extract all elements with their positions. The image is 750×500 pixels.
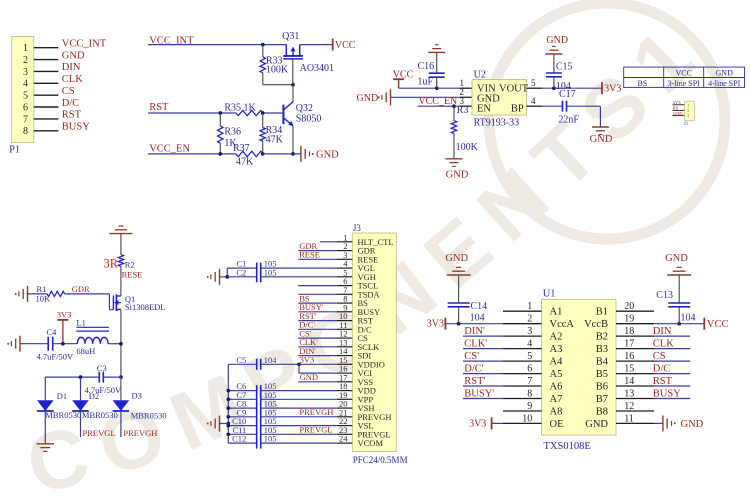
wire GDR to Q1 gate xyxy=(65,294,114,310)
svg-text:R2: R2 xyxy=(125,260,135,270)
R34 designator and value 47K xyxy=(266,125,284,145)
svg-text:B2: B2 xyxy=(596,332,608,343)
svg-text:C13: C13 xyxy=(656,290,673,301)
node 3V3/C4/L1 xyxy=(61,342,65,346)
R36 designator and value 1K xyxy=(224,127,241,149)
capacitor C6 xyxy=(228,385,336,396)
wire BP to ground xyxy=(599,106,601,127)
svg-text:CS': CS' xyxy=(464,351,479,362)
power port 3V3 (U1 VccA) xyxy=(427,318,446,330)
svg-text:VccB: VccB xyxy=(584,319,608,330)
node 3V3/pin16 branch xyxy=(297,362,301,366)
svg-text:A5: A5 xyxy=(550,369,563,380)
wire 3V3 to VccA xyxy=(445,323,503,325)
node C16/VIN xyxy=(435,86,439,90)
svg-text:CLK': CLK' xyxy=(464,339,487,350)
svg-text:GND: GND xyxy=(716,69,734,78)
node R35/R34 xyxy=(261,111,265,115)
U1 pin numbers left 1-10 xyxy=(522,301,532,424)
svg-text:VccA: VccA xyxy=(550,319,575,330)
capacitor C10 xyxy=(228,420,336,431)
wire R33 bottom to gate node xyxy=(263,84,293,86)
svg-text:B8: B8 xyxy=(596,407,608,418)
svg-text:GND: GND xyxy=(445,253,468,264)
wire EN xyxy=(418,105,472,107)
capacitor C13 xyxy=(668,275,690,324)
svg-text:3R: 3R xyxy=(104,257,119,271)
svg-text:VCC_INT: VCC_INT xyxy=(62,39,107,50)
net label RESE (J3 pin3) xyxy=(298,250,336,260)
svg-text:GND: GND xyxy=(681,419,704,430)
svg-text:6: 6 xyxy=(23,103,28,114)
capacitor C9 xyxy=(228,411,336,422)
svg-text:DIN: DIN xyxy=(62,62,81,73)
wire VOUT to 3V3 xyxy=(527,87,603,89)
svg-text:D/C: D/C xyxy=(653,364,671,375)
wire J3 pin6 xyxy=(298,285,336,287)
wire U2 GND pin xyxy=(391,96,473,98)
wire PREVGL stub xyxy=(80,411,82,437)
wire to D2 xyxy=(80,377,82,400)
svg-text:100K: 100K xyxy=(456,142,479,153)
wire J3 pin1 xyxy=(320,241,337,243)
svg-text:R1: R1 xyxy=(37,284,47,294)
svg-text:D/C': D/C' xyxy=(464,364,484,375)
svg-text:GND: GND xyxy=(673,111,683,116)
svg-text:A7: A7 xyxy=(550,394,563,405)
svg-text:C17: C17 xyxy=(559,89,576,100)
resistor R33 xyxy=(260,45,265,85)
svg-text:R35 1K: R35 1K xyxy=(224,103,256,114)
P1 pin numbers 1-8 xyxy=(23,43,28,137)
svg-text:RST: RST xyxy=(149,102,169,113)
svg-text:GND: GND xyxy=(665,253,688,264)
svg-text:GND: GND xyxy=(585,419,608,430)
wire J3 pin7 xyxy=(298,293,336,295)
svg-text:VCC: VCC xyxy=(393,69,414,80)
svg-text:105: 105 xyxy=(264,267,277,277)
table texts xyxy=(638,69,741,88)
wire L1 to Q1 rail xyxy=(108,343,121,345)
ground (U1 pin 11) xyxy=(663,415,704,431)
ground (below R3) xyxy=(446,159,469,181)
wire branch to pin16 xyxy=(299,364,337,373)
IC U1 TXS0108E xyxy=(542,300,617,435)
net label DIN' (J3 pin 14) xyxy=(298,346,336,356)
net label DIN' (U1 pin 3) xyxy=(463,326,503,337)
svg-text:MBR0530: MBR0530 xyxy=(131,410,167,420)
connector P1 xyxy=(12,37,34,143)
svg-text:BP: BP xyxy=(511,104,524,115)
svg-text:4-line SPI: 4-line SPI xyxy=(708,79,741,88)
node VCC_INT/R33 xyxy=(261,43,265,47)
J1 pin numbers xyxy=(687,102,690,118)
power port VCC xyxy=(333,39,356,51)
svg-text:4: 4 xyxy=(531,96,536,106)
svg-text:3V3: 3V3 xyxy=(673,100,681,105)
J3 pin names xyxy=(358,237,394,448)
ground (top of boost section, above R2) xyxy=(109,226,132,234)
U2 pin numbers xyxy=(460,78,537,106)
svg-text:R36: R36 xyxy=(224,127,241,138)
svg-text:22nF: 22nF xyxy=(558,115,579,126)
capacitor C15 xyxy=(546,54,562,88)
svg-text:VCC: VCC xyxy=(707,319,729,330)
wire VIN xyxy=(399,87,472,89)
U2 pin names xyxy=(477,84,529,115)
wire R35 to Q32 base xyxy=(263,112,283,114)
net label RST (U1 pin 14) xyxy=(653,376,690,387)
net label CS' (U1 pin 5) xyxy=(463,351,503,362)
svg-text:RESE: RESE xyxy=(122,269,143,279)
resistor R3 xyxy=(451,106,456,159)
net label CLK' (U1 pin 4) xyxy=(463,339,503,350)
svg-text:47K: 47K xyxy=(266,135,284,146)
svg-text:C4: C4 xyxy=(47,327,58,337)
net label BUSY (U1 pin 13) xyxy=(653,389,690,400)
svg-text:J3: J3 xyxy=(353,223,362,233)
capacitor C4 xyxy=(20,337,77,351)
svg-text:100K: 100K xyxy=(266,64,289,75)
svg-text:VCC_EN: VCC_EN xyxy=(418,96,457,107)
svg-text:PFC24/0.5MM: PFC24/0.5MM xyxy=(353,455,408,465)
svg-text:PREVGL: PREVGL xyxy=(83,428,116,438)
svg-text:D3: D3 xyxy=(132,390,142,400)
svg-text:GND: GND xyxy=(316,150,339,161)
IC U2 RT9193-33 xyxy=(472,80,527,116)
svg-text:GND: GND xyxy=(446,170,469,181)
svg-text:B3: B3 xyxy=(596,344,608,355)
svg-text:1: 1 xyxy=(23,43,28,54)
net label DIN (U1 pin 18) xyxy=(653,326,690,337)
wire cap common rail xyxy=(227,364,229,443)
net label GDR (J3 pin2) xyxy=(298,241,336,251)
ground (above C15) xyxy=(545,35,568,54)
svg-text:A3: A3 xyxy=(550,344,563,355)
svg-text:RT9193-33: RT9193-33 xyxy=(474,117,520,128)
ground (left of R1) xyxy=(15,286,28,302)
svg-text:3: 3 xyxy=(460,96,465,106)
svg-text:S8050: S8050 xyxy=(296,114,322,125)
svg-text:R37: R37 xyxy=(233,143,250,154)
svg-text:C2: C2 xyxy=(236,267,246,277)
wire Q1 source down xyxy=(120,310,122,378)
net label D/C' (U1 pin 6) xyxy=(463,364,503,375)
svg-text:MBR0530: MBR0530 xyxy=(82,410,118,420)
svg-text:RST: RST xyxy=(62,110,82,121)
svg-text:R3: R3 xyxy=(457,105,469,116)
J3 pin stubs xyxy=(337,242,353,443)
svg-text:B1: B1 xyxy=(596,307,608,318)
svg-text:GND: GND xyxy=(546,35,568,46)
net label RST' (J3 pin 10) xyxy=(298,311,336,321)
svg-text:CLK: CLK xyxy=(653,339,674,350)
svg-text:BUSY': BUSY' xyxy=(464,389,494,400)
node C13/VccB xyxy=(677,322,681,326)
svg-text:OE: OE xyxy=(550,419,564,430)
nodes on cap rail xyxy=(226,389,230,436)
svg-text:DIN: DIN xyxy=(653,326,672,337)
svg-text:5: 5 xyxy=(531,78,536,88)
resistor R37 xyxy=(236,151,263,156)
svg-text:CS: CS xyxy=(653,351,666,362)
svg-text:7: 7 xyxy=(23,114,28,125)
net label CS (U1 pin 16) xyxy=(653,351,690,362)
net label RST' (U1 pin 7) xyxy=(463,376,503,387)
svg-text:Si1308EDL: Si1308EDL xyxy=(125,302,166,312)
svg-text:P1: P1 xyxy=(9,144,20,155)
diode D3 MBR0530 xyxy=(113,400,130,411)
wire VCC_INT xyxy=(148,44,286,46)
transistor Q32 (NPN S8050) xyxy=(283,102,293,127)
svg-text:DIN': DIN' xyxy=(464,326,485,337)
svg-text:10K: 10K xyxy=(36,294,52,304)
wire Q32 collector xyxy=(292,85,294,102)
svg-text:VCOM: VCOM xyxy=(358,438,384,448)
svg-text:2: 2 xyxy=(23,55,28,66)
svg-text:C14: C14 xyxy=(471,301,488,312)
svg-text:C12: C12 xyxy=(232,434,246,444)
svg-text:4: 4 xyxy=(23,79,28,90)
svg-text:A8: A8 xyxy=(550,407,563,418)
capacitor C11 xyxy=(228,429,336,440)
diode D1 MBR0530 xyxy=(37,400,54,411)
svg-text:RESE: RESE xyxy=(299,250,320,260)
svg-text:U2: U2 xyxy=(474,70,486,81)
svg-text:4.7uF/50V: 4.7uF/50V xyxy=(37,351,74,361)
svg-text:C5: C5 xyxy=(236,355,246,365)
node C3/D2 xyxy=(79,375,83,379)
svg-text:J1: J1 xyxy=(684,122,689,127)
ground (right of Q32) xyxy=(301,146,339,162)
transistor Q31 (P-MOSFET) xyxy=(283,45,303,85)
connector J3 xyxy=(352,233,396,452)
svg-text:CS: CS xyxy=(62,86,75,97)
power port 3V3 (U1 OE) xyxy=(469,417,503,429)
U1 pin numbers right 20-11 xyxy=(624,301,634,424)
diode D2 MBR0530 xyxy=(72,400,89,411)
svg-text:B6: B6 xyxy=(596,382,608,393)
svg-text:PREVGL: PREVGL xyxy=(299,425,332,435)
svg-text:5: 5 xyxy=(23,91,28,102)
svg-text:C15: C15 xyxy=(556,61,573,72)
connector J1 xyxy=(684,101,694,120)
svg-text:VCC: VCC xyxy=(335,40,356,51)
capacitor C12 xyxy=(228,438,336,449)
resistor R2 xyxy=(118,234,123,296)
net label CLK (U1 pin 17) xyxy=(653,339,690,350)
wire Q31 to VCC xyxy=(300,44,333,46)
svg-text:104: 104 xyxy=(681,313,696,324)
U1 pin stubs right xyxy=(616,311,654,423)
node L1/rail xyxy=(119,342,123,346)
wire gnd to C1/C2 xyxy=(220,268,228,277)
node EN/R3 xyxy=(452,104,456,108)
ground (left of C1/C2) xyxy=(207,269,220,285)
ground (above C16) xyxy=(428,45,445,53)
net label BS (J3 pin 8) xyxy=(298,293,336,303)
J3 pin numbers 1-24 xyxy=(339,232,348,443)
svg-text:Q31: Q31 xyxy=(282,31,299,42)
svg-text:TXS0108E: TXS0108E xyxy=(544,441,591,452)
table BS / SPI modes xyxy=(624,67,745,87)
wire gnd to R1 xyxy=(28,293,48,295)
capacitor C16 xyxy=(429,52,445,88)
node C14/VccA xyxy=(457,322,461,326)
J1 pin stubs xyxy=(673,105,685,116)
watermark ring xyxy=(489,3,725,239)
resistor R1 xyxy=(47,291,65,296)
transistor Q1 (N-MOSFET Si1308EDL) xyxy=(113,294,121,311)
node gate of Q31 / base network xyxy=(291,83,295,87)
svg-text:B7: B7 xyxy=(596,394,608,405)
svg-text:GND: GND xyxy=(590,134,613,145)
svg-text:1uF: 1uF xyxy=(418,76,434,87)
capacitor C14 xyxy=(448,275,470,324)
net label CS' (J3 pin 12) xyxy=(298,328,336,338)
svg-text:104: 104 xyxy=(264,355,278,365)
svg-text:RST: RST xyxy=(653,376,673,387)
svg-text:PREVGH: PREVGH xyxy=(299,407,333,417)
net label D/C' (J3 pin 11) xyxy=(298,320,336,330)
svg-text:C3: C3 xyxy=(97,363,107,373)
inductor L1 xyxy=(76,327,109,343)
svg-text:D2: D2 xyxy=(89,391,99,401)
net label CLK' (J3 pin 13) xyxy=(298,337,336,347)
capacitor C7 xyxy=(228,394,336,405)
R33 designator and value 100K xyxy=(266,56,289,76)
svg-text:47K: 47K xyxy=(236,157,254,168)
svg-text:VCC: VCC xyxy=(675,69,691,78)
resistor R35 xyxy=(236,110,263,115)
svg-text:3-line SPI: 3-line SPI xyxy=(668,79,701,88)
nodes on VCC_EN rail xyxy=(218,152,294,156)
capacitor C8 xyxy=(228,403,336,414)
node C1/C2 common xyxy=(225,275,229,279)
svg-text:GND: GND xyxy=(357,93,379,104)
svg-text:A2: A2 xyxy=(550,332,563,343)
resistor R36 xyxy=(218,113,223,154)
svg-text:BS: BS xyxy=(638,79,648,88)
svg-text:CLK: CLK xyxy=(62,74,83,85)
wire to D1 xyxy=(44,377,46,400)
svg-text:A4: A4 xyxy=(550,357,564,368)
P1 pin stubs xyxy=(34,48,59,131)
svg-text:C16: C16 xyxy=(418,61,435,72)
svg-text:3V3: 3V3 xyxy=(604,84,621,95)
net label BUSY' (J3 pin 9) xyxy=(298,302,336,312)
ground (below D1) xyxy=(37,444,54,452)
svg-text:PREVGH: PREVGH xyxy=(123,428,157,438)
svg-text:104: 104 xyxy=(470,313,485,324)
svg-text:GDR: GDR xyxy=(72,284,90,294)
wire to D3 xyxy=(120,377,122,400)
svg-text:A1: A1 xyxy=(550,307,563,318)
wire VccB to VCC xyxy=(654,323,704,325)
capacitor C1 xyxy=(227,263,336,274)
net label D/C (U1 pin 15) xyxy=(653,364,690,375)
ground (left of C4) xyxy=(7,336,20,352)
svg-text:VOUT: VOUT xyxy=(499,84,529,95)
svg-text:68uH: 68uH xyxy=(76,346,95,356)
svg-text:3: 3 xyxy=(23,67,28,78)
wire VCC_EN to GND xyxy=(263,153,301,155)
power port 3V3 (left) xyxy=(57,310,72,344)
svg-text:24: 24 xyxy=(339,434,348,444)
wire U1 GND pin xyxy=(654,422,663,424)
svg-text:105: 105 xyxy=(264,434,277,444)
wire VCC_EN xyxy=(148,153,236,155)
node VOUT/C15 xyxy=(552,86,556,90)
svg-text:U1: U1 xyxy=(543,289,556,300)
capacitor C5 xyxy=(228,359,336,370)
svg-text:1: 1 xyxy=(687,102,689,107)
svg-text:VCC_EN: VCC_EN xyxy=(149,144,190,155)
wire PREVGH stub xyxy=(120,411,122,437)
svg-text:8: 8 xyxy=(23,126,28,137)
svg-text:A6: A6 xyxy=(550,382,563,393)
wire RST xyxy=(148,112,236,114)
resistor R34 xyxy=(260,113,265,154)
node rail/C3/D3 xyxy=(119,375,123,379)
svg-text:GND: GND xyxy=(300,372,318,382)
svg-text:BUSY: BUSY xyxy=(653,389,681,400)
capacitor C2 xyxy=(227,271,336,282)
ground (above C14) xyxy=(445,253,470,275)
power port 3V3 (U2 output) xyxy=(602,82,621,94)
capacitor C17 xyxy=(527,101,601,112)
capacitor C3 xyxy=(45,372,121,383)
svg-text:D/C: D/C xyxy=(62,98,80,109)
ground (below C17) xyxy=(590,127,613,145)
svg-text:EN: EN xyxy=(477,104,491,115)
svg-text:3V3: 3V3 xyxy=(427,319,444,330)
svg-text:GND: GND xyxy=(62,50,85,61)
net label BUSY' (U1 pin 8) xyxy=(463,389,503,400)
node RST/R36 xyxy=(218,111,222,115)
svg-text:3V3: 3V3 xyxy=(57,310,72,320)
ground (left, U2 pin2) xyxy=(357,89,391,105)
wire Q32 emitter to GND rail xyxy=(292,126,294,154)
wire D1 to ground xyxy=(44,411,46,444)
svg-text:AO3401: AO3401 xyxy=(300,63,334,74)
svg-text:3V3: 3V3 xyxy=(469,418,486,429)
svg-text:B4: B4 xyxy=(596,357,609,368)
svg-text:D1: D1 xyxy=(57,391,67,401)
svg-text:B5: B5 xyxy=(596,369,608,380)
power port VCC (U1 VccB) xyxy=(704,318,728,331)
svg-text:RST': RST' xyxy=(464,376,485,387)
svg-text:L1: L1 xyxy=(76,317,85,327)
U1 pin names xyxy=(550,307,609,430)
U1 pin stubs left xyxy=(503,311,542,423)
net label GND (J3 pin17) xyxy=(298,372,336,382)
svg-text:3V3: 3V3 xyxy=(300,355,315,365)
ground (left of cap rail) xyxy=(207,416,229,432)
svg-text:BUSY: BUSY xyxy=(62,122,90,133)
ground (above C13) xyxy=(665,253,691,275)
power port VCC (U2 input) xyxy=(393,69,414,88)
